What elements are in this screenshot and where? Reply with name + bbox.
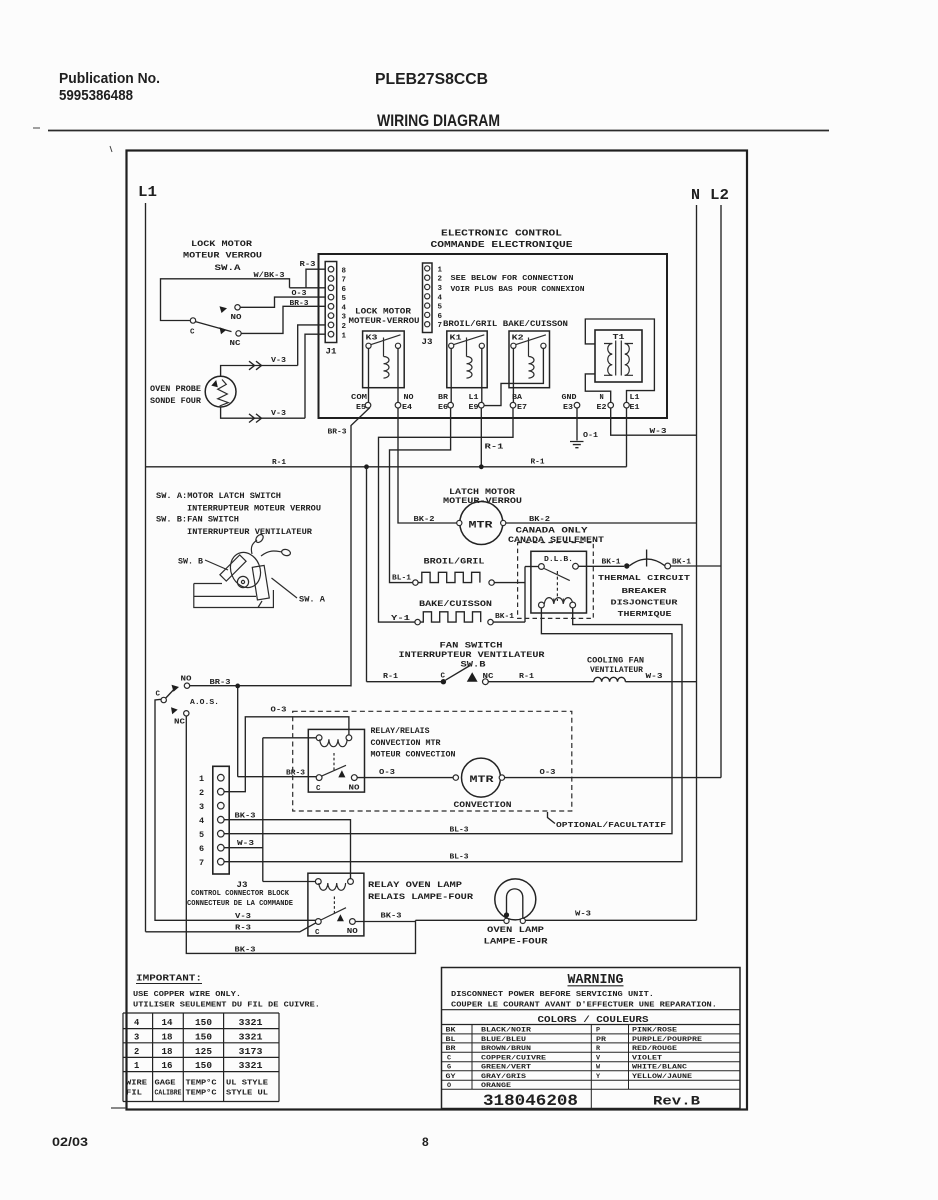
- wire T1 primary loop: [585, 319, 654, 402]
- relay oven lamp K5: [308, 873, 364, 937]
- wire R-1 main: [146, 459, 627, 470]
- svg-text:IMPORTANT:: IMPORTANT:: [136, 974, 202, 984]
- wire broil right to DLB: [494, 582, 525, 584]
- svg-text:C: C: [316, 785, 321, 793]
- svg-text:THERMIQUE: THERMIQUE: [618, 611, 673, 619]
- svg-text:COOLING FAN: COOLING FAN: [587, 657, 644, 665]
- svg-text:W-3: W-3: [646, 673, 664, 681]
- svg-text:CANADA ONLY: CANADA ONLY: [516, 527, 588, 536]
- wire T1 secondary to E2: [585, 374, 610, 403]
- relay convection K4: [308, 729, 364, 793]
- wire BK-3 AOS NC loop: [186, 716, 415, 953]
- svg-text:SW.A: SW.A: [215, 264, 241, 273]
- svg-text:NO: NO: [231, 314, 243, 322]
- main diagram border: [127, 151, 748, 1110]
- svg-text:2: 2: [438, 276, 443, 284]
- svg-text:8: 8: [422, 1135, 429, 1149]
- svg-text:1: 1: [199, 774, 204, 784]
- svg-text:DISCONNECT POWER BEFORE SERVIC: DISCONNECT POWER BEFORE SERVICING UNIT.: [451, 991, 654, 999]
- svg-text:4: 4: [134, 1018, 140, 1028]
- svg-text:P: P: [596, 1027, 600, 1035]
- svg-text:L1: L1: [630, 394, 640, 402]
- switch legend text: [156, 493, 321, 537]
- wire O-3 J3 pin2 to convection coil: [224, 707, 349, 792]
- svg-text:BK-1: BK-1: [495, 613, 515, 621]
- svg-text:L1: L1: [469, 394, 479, 402]
- svg-text:5: 5: [199, 830, 204, 840]
- switch SW.A: [183, 240, 262, 348]
- svg-text:CANADA SEULEMENT: CANADA SEULEMENT: [508, 536, 604, 545]
- optional dashed box: [293, 711, 572, 811]
- wire W-3 J3 pin6 to relay coils: [224, 738, 316, 882]
- relay K3: [363, 331, 405, 402]
- svg-text:R-1: R-1: [383, 673, 399, 681]
- svg-text:3: 3: [134, 1033, 139, 1043]
- svg-text:SEE BELOW FOR CONNECTION: SEE BELOW FOR CONNECTION: [451, 275, 574, 283]
- wire BK-2 latch motor to N: [506, 516, 697, 524]
- svg-text:3173: 3173: [239, 1047, 263, 1057]
- label canada only: [508, 527, 604, 546]
- svg-text:RELAY/RELAIS: RELAY/RELAIS: [371, 728, 430, 736]
- svg-text:4: 4: [199, 816, 204, 826]
- svg-text:K1: K1: [450, 335, 463, 343]
- warning box: [442, 968, 741, 1109]
- svg-text:NO: NO: [349, 785, 361, 793]
- wire O-3 NO to J1 pin 5: [240, 290, 325, 307]
- svg-text:SW. A:MOTOR LATCH SWITCH: SW. A:MOTOR LATCH SWITCH: [156, 493, 281, 501]
- svg-text:NO: NO: [181, 676, 193, 684]
- svg-text:GY: GY: [446, 1073, 457, 1081]
- svg-text:3: 3: [342, 314, 347, 322]
- svg-text:W-3: W-3: [237, 840, 255, 848]
- svg-text:E5: E5: [356, 404, 366, 412]
- svg-text:D.L.B.: D.L.B.: [544, 556, 573, 564]
- svg-text:E2: E2: [597, 404, 607, 412]
- label optional: [548, 812, 667, 830]
- svg-text:BL: BL: [446, 1036, 456, 1044]
- wire BR-3 AOS to E5: [190, 686, 351, 777]
- svg-text:RELAY OVEN LAMP: RELAY OVEN LAMP: [368, 881, 462, 890]
- svg-text:C: C: [190, 329, 195, 337]
- colors table: [442, 1025, 741, 1109]
- svg-text:R-1: R-1: [519, 673, 535, 681]
- oven probe RT1: [150, 376, 236, 407]
- svg-text:BLACK/NOIR: BLACK/NOIR: [481, 1027, 532, 1035]
- svg-text:A.O.S.: A.O.S.: [190, 699, 219, 707]
- svg-text:Publication No.: Publication No.: [59, 70, 160, 87]
- svg-text:BR-3: BR-3: [286, 770, 306, 778]
- svg-text:FIL: FIL: [126, 1090, 143, 1098]
- svg-text:O-3: O-3: [271, 707, 288, 715]
- svg-text:18: 18: [162, 1047, 173, 1057]
- svg-text:J1: J1: [326, 347, 337, 357]
- wire BK-3 J3 pin4 to lamp coil: [224, 813, 350, 879]
- svg-text:STYLE UL: STYLE UL: [226, 1090, 268, 1098]
- svg-text:WIRING DIAGRAM: WIRING DIAGRAM: [377, 112, 500, 130]
- wire bake right to DLB riser: [493, 567, 525, 623]
- svg-text:2: 2: [134, 1047, 139, 1057]
- svg-text:VENTILATEUR: VENTILATEUR: [590, 667, 643, 675]
- svg-text:3321: 3321: [239, 1061, 263, 1071]
- terminal E4: [395, 394, 413, 412]
- wire V-3 probe bottom: [221, 407, 305, 423]
- svg-text:K2: K2: [512, 335, 525, 343]
- svg-text:MOTEUR CONVECTION: MOTEUR CONVECTION: [371, 752, 456, 760]
- svg-text:8: 8: [342, 267, 347, 275]
- svg-text:INTERRUPTEUR VENTILATEUR: INTERRUPTEUR VENTILATEUR: [187, 529, 312, 537]
- svg-text:RELAIS LAMPE-FOUR: RELAIS LAMPE-FOUR: [368, 893, 473, 902]
- wire L1 rail: [145, 203, 147, 932]
- svg-text:2: 2: [199, 788, 204, 798]
- svg-text:LOCK MOTOR: LOCK MOTOR: [355, 308, 411, 317]
- svg-text:CONTROL CONNECTOR BLOCK: CONTROL CONNECTOR BLOCK: [191, 890, 290, 898]
- svg-text:GRAY/GRIS: GRAY/GRIS: [481, 1073, 526, 1081]
- wire V-3 probe top: [221, 357, 298, 376]
- svg-text:CONVECTION: CONVECTION: [454, 802, 512, 810]
- wire J1 pin 6: [290, 287, 326, 289]
- svg-text:TEMP°C: TEMP°C: [186, 1089, 218, 1098]
- svg-text:318046208: 318046208: [483, 1092, 578, 1110]
- svg-text:4: 4: [342, 304, 347, 312]
- svg-text:C: C: [441, 673, 446, 681]
- svg-text:MTR: MTR: [469, 520, 494, 532]
- svg-text:LAMPE-FOUR: LAMPE-FOUR: [484, 938, 548, 947]
- label thermal breaker: [598, 575, 691, 619]
- svg-text:CONVECTION MTR: CONVECTION MTR: [371, 740, 441, 748]
- svg-text:THERMAL CIRCUIT: THERMAL CIRCUIT: [598, 575, 691, 583]
- oven lamp LP1: [484, 879, 548, 947]
- svg-text:BAKE/CUISSON: BAKE/CUISSON: [419, 600, 492, 609]
- heating element bake: [391, 600, 515, 625]
- svg-text:E1: E1: [630, 404, 640, 412]
- svg-text:FAN SWITCH: FAN SWITCH: [440, 642, 503, 650]
- svg-text:R-1: R-1: [272, 459, 287, 467]
- connector J3 lower: [187, 766, 293, 908]
- svg-text:VIOLET: VIOLET: [632, 1055, 662, 1063]
- svg-text:INTERRUPTEUR VENTILATEUR: INTERRUPTEUR VENTILATEUR: [399, 652, 545, 660]
- svg-text:V-3: V-3: [235, 913, 252, 921]
- motor convection MTR: [453, 758, 512, 810]
- svg-text:BK-3: BK-3: [235, 947, 257, 955]
- wire BR-3 NC to J1 pin 4: [241, 300, 325, 334]
- svg-text:150: 150: [195, 1033, 212, 1043]
- wire O-3 MTR to L2: [505, 769, 721, 778]
- svg-text:BREAKER: BREAKER: [622, 588, 668, 596]
- svg-text:1: 1: [342, 332, 347, 340]
- svg-text:6: 6: [342, 286, 347, 294]
- svg-text:14: 14: [162, 1018, 174, 1028]
- svg-text:J3: J3: [237, 881, 248, 890]
- svg-text:PLEB27S8CCB: PLEB27S8CCB: [375, 71, 488, 88]
- terminal E7: [510, 394, 527, 412]
- wire BL-3 J3 pin7 to DLB coil right: [224, 608, 682, 862]
- svg-text:4: 4: [438, 294, 443, 302]
- svg-text:R-3: R-3: [300, 261, 317, 269]
- svg-text:C: C: [447, 1055, 451, 1063]
- svg-text:LATCH MOTOR: LATCH MOTOR: [449, 488, 515, 497]
- svg-text:UTILISER SEULEMENT DU FIL DE C: UTILISER SEULEMENT DU FIL DE CUIVRE.: [133, 1002, 320, 1010]
- svg-text:GND: GND: [562, 394, 577, 402]
- switch AOS: [156, 676, 220, 727]
- svg-text:O-3: O-3: [540, 769, 557, 777]
- wire E2 W-3 to N: [611, 408, 697, 436]
- wire DLB left contact: [525, 566, 539, 568]
- svg-text:V-3: V-3: [271, 410, 287, 418]
- svg-text:BR: BR: [446, 1045, 457, 1053]
- svg-text:YELLOW/JAUNE: YELLOW/JAUNE: [632, 1073, 692, 1081]
- svg-text:NC: NC: [174, 719, 186, 727]
- svg-text:BR: BR: [438, 394, 449, 402]
- svg-text:BK-2: BK-2: [414, 516, 436, 524]
- label convection relay: [371, 728, 456, 760]
- svg-text:E9: E9: [469, 404, 479, 412]
- wire E7 to bake: [379, 408, 514, 622]
- svg-text:USE COPPER WIRE ONLY.: USE COPPER WIRE ONLY.: [133, 991, 241, 999]
- svg-text:7: 7: [199, 858, 204, 868]
- wire R-3 L1 to lamp relay: [146, 923, 317, 933]
- svg-text:ORANGE: ORANGE: [481, 1082, 511, 1090]
- svg-text:Y-1: Y-1: [391, 615, 411, 623]
- svg-text:BK-1: BK-1: [672, 558, 692, 566]
- svg-text:T1: T1: [613, 334, 626, 342]
- svg-text:5995386488: 5995386488: [59, 87, 133, 104]
- important note: [133, 974, 320, 1010]
- svg-text:BROIL/GRIL BAKE/CUISSON: BROIL/GRIL BAKE/CUISSON: [443, 320, 568, 329]
- wire R-1 drop to fan switch: [366, 467, 368, 682]
- svg-text:OVEN PROBE: OVEN PROBE: [150, 385, 201, 394]
- svg-text:PINK/ROSE: PINK/ROSE: [632, 1027, 677, 1035]
- svg-text:CONNECTEUR DE LA COMMANDE: CONNECTEUR DE LA COMMANDE: [187, 900, 293, 908]
- wire O-3 relay NO to MTR: [357, 769, 453, 778]
- svg-text:L2: L2: [710, 187, 729, 204]
- scan tick top-left: [33, 128, 112, 152]
- svg-text:DISJONCTEUR: DISJONCTEUR: [611, 600, 679, 608]
- relay DLB: [531, 551, 587, 613]
- wire BK-3 relay NO to lamp: [355, 913, 504, 922]
- svg-text:BR-3: BR-3: [210, 679, 232, 687]
- svg-text:MOTEUR-VERROU: MOTEUR-VERROU: [349, 317, 420, 326]
- junction AOS BR-3: [235, 684, 240, 689]
- svg-text:PR: PR: [596, 1036, 607, 1044]
- svg-text:Rev.B: Rev.B: [653, 1094, 700, 1109]
- latch assembly illustration: [178, 533, 325, 607]
- svg-text:E3: E3: [563, 404, 573, 412]
- svg-text:02/03: 02/03: [52, 1135, 88, 1149]
- relay K1: [447, 331, 487, 403]
- terminal E5: [351, 394, 371, 412]
- switch SW.B fan: [367, 642, 594, 684]
- svg-text:W-3: W-3: [575, 910, 592, 918]
- wire N rail: [696, 205, 698, 920]
- svg-text:NO: NO: [347, 928, 359, 936]
- svg-text:O: O: [447, 1082, 451, 1090]
- svg-text:1: 1: [134, 1061, 139, 1071]
- svg-text:5: 5: [438, 304, 443, 312]
- svg-text:7: 7: [438, 322, 443, 330]
- svg-text:N: N: [600, 394, 604, 402]
- svg-text:LOCK MOTOR: LOCK MOTOR: [191, 240, 252, 249]
- svg-text:J3: J3: [422, 337, 433, 347]
- note see below: [451, 275, 585, 294]
- svg-text:NO: NO: [404, 394, 414, 402]
- svg-text:BK-1: BK-1: [602, 558, 622, 566]
- svg-text:CALIBRE: CALIBRE: [155, 1090, 182, 1098]
- svg-text:E7: E7: [517, 404, 527, 412]
- svg-text:INTERRUPTEUR MOTEUR VERROU: INTERRUPTEUR MOTEUR VERROU: [187, 506, 321, 514]
- svg-text:COM: COM: [351, 394, 367, 402]
- svg-text:VOIR PLUS BAS POUR CONNEXION: VOIR PLUS BAS POUR CONNEXION: [451, 286, 585, 294]
- connector J1: [325, 262, 346, 357]
- svg-text:SW. B: SW. B: [178, 559, 203, 567]
- svg-text:TEMP°C: TEMP°C: [186, 1079, 218, 1088]
- header rule: [48, 130, 829, 132]
- svg-text:WHITE/BLANC: WHITE/BLANC: [632, 1064, 687, 1072]
- wire DLB to breaker: [578, 565, 624, 567]
- svg-text:18: 18: [162, 1033, 173, 1043]
- svg-text:COPPER/CUIVRE: COPPER/CUIVRE: [481, 1055, 546, 1063]
- transformer T1: [595, 330, 642, 382]
- label oven lamp relay: [368, 881, 473, 902]
- svg-text:E6: E6: [438, 404, 448, 412]
- svg-text:BL-1: BL-1: [392, 574, 412, 582]
- thermal circuit breaker CB1: [624, 550, 671, 569]
- electronic control box U1: [319, 254, 668, 418]
- wire gauge table: [123, 1013, 279, 1102]
- svg-text:5: 5: [342, 295, 347, 303]
- terminal E3: [562, 394, 580, 412]
- wire E4 to latch motor: [398, 408, 459, 523]
- terminal E1: [624, 394, 640, 412]
- svg-text:R-1: R-1: [531, 459, 546, 467]
- svg-text:O-1: O-1: [583, 432, 599, 440]
- svg-text:C: C: [315, 929, 320, 937]
- ground E3: [570, 408, 599, 448]
- svg-text:K3: K3: [366, 335, 379, 343]
- svg-text:OPTIONAL/FACULTATIF: OPTIONAL/FACULTATIF: [556, 822, 667, 830]
- wire L2 rail: [720, 205, 722, 778]
- svg-text:OVEN LAMP: OVEN LAMP: [487, 926, 544, 935]
- svg-text:C: C: [156, 691, 161, 699]
- svg-text:RED/ROUGE: RED/ROUGE: [632, 1045, 677, 1053]
- svg-text:E4: E4: [402, 404, 412, 412]
- svg-text:SW. B:FAN SWITCH: SW. B:FAN SWITCH: [156, 517, 239, 525]
- svg-text:125: 125: [195, 1047, 212, 1057]
- svg-text:SW. A: SW. A: [299, 597, 325, 605]
- svg-text:ELECTRONIC CONTROL: ELECTRONIC CONTROL: [441, 229, 562, 239]
- wire W-3 lamp to N: [525, 910, 696, 920]
- svg-text:SONDE FOUR: SONDE FOUR: [150, 397, 201, 406]
- svg-text:UL STYLE: UL STYLE: [226, 1080, 268, 1088]
- svg-text:BL-3: BL-3: [450, 854, 470, 862]
- wire V-3 AOS C to lamp relay: [155, 699, 315, 920]
- svg-text:NC: NC: [230, 340, 242, 348]
- svg-text:7: 7: [342, 277, 347, 285]
- terminal E6: [438, 394, 453, 412]
- wire W/BK-3 lock switch loop: [161, 272, 290, 321]
- wire E6 to broil: [390, 408, 451, 583]
- svg-text:GREEN/VERT: GREEN/VERT: [481, 1064, 531, 1072]
- svg-text:BROWN/BRUN: BROWN/BRUN: [481, 1045, 531, 1053]
- latch motor MTR: [443, 488, 522, 545]
- wire E9 to R-1: [481, 408, 504, 467]
- svg-text:BA: BA: [512, 394, 523, 402]
- svg-text:150: 150: [195, 1018, 212, 1028]
- wire BL-3 J3 pin5 to DLB coil: [224, 608, 672, 835]
- svg-text:V-3: V-3: [271, 357, 287, 365]
- svg-text:6: 6: [199, 844, 204, 854]
- heating element broil: [392, 558, 494, 586]
- svg-text:O-3: O-3: [379, 769, 396, 777]
- svg-text:N: N: [691, 187, 700, 204]
- svg-text:BROIL/GRIL: BROIL/GRIL: [424, 558, 485, 567]
- svg-text:BLUE/BLEU: BLUE/BLEU: [481, 1036, 526, 1044]
- svg-text:3: 3: [438, 285, 443, 293]
- svg-text:BR-3: BR-3: [328, 429, 348, 437]
- svg-text:2: 2: [342, 323, 347, 331]
- svg-text:R-3: R-3: [235, 924, 252, 932]
- wire J1 pin 1 to probe: [305, 334, 325, 418]
- svg-text:COLORS / COULEURS: COLORS / COULEURS: [538, 1014, 649, 1025]
- svg-text:6: 6: [438, 313, 443, 321]
- svg-text:1: 1: [438, 266, 443, 274]
- svg-text:3321: 3321: [239, 1018, 263, 1028]
- wire J1 pin 2 to probe: [298, 325, 326, 366]
- svg-text:3: 3: [199, 802, 204, 812]
- svg-text:BK-3: BK-3: [381, 913, 403, 921]
- svg-text:MTR: MTR: [470, 774, 495, 786]
- wire E1 to R-1: [626, 408, 628, 467]
- header publication number: [59, 70, 160, 104]
- svg-text:150: 150: [195, 1061, 212, 1071]
- scan tick bottom-left: [111, 1107, 126, 1109]
- svg-text:WIRE: WIRE: [126, 1080, 148, 1088]
- svg-text:PURPLE/POURPRE: PURPLE/POURPRE: [632, 1036, 702, 1044]
- connector J3 upper: [422, 263, 443, 347]
- svg-text:3321: 3321: [239, 1033, 263, 1043]
- svg-text:R-1: R-1: [485, 444, 505, 452]
- terminal E9: [469, 394, 485, 412]
- svg-text:COUPER LE COURANT AVANT D'EFFE: COUPER LE COURANT AVANT D'EFFECTUER UNE …: [451, 1002, 717, 1010]
- relay K2: [484, 331, 549, 406]
- svg-text:16: 16: [162, 1061, 173, 1071]
- svg-text:MOTEUR VERROU: MOTEUR VERROU: [183, 252, 262, 261]
- wire BR-3 from E5: [328, 408, 370, 687]
- svg-text:L1: L1: [138, 184, 157, 201]
- svg-text:COMMANDE ELECTRONIQUE: COMMANDE ELECTRONIQUE: [431, 240, 574, 250]
- svg-text:GAGE: GAGE: [155, 1080, 177, 1088]
- cooling fan inductor: [587, 657, 697, 681]
- wire breaker to L2: [671, 565, 721, 567]
- svg-text:BK: BK: [446, 1027, 457, 1035]
- canada dashed box: [518, 543, 594, 619]
- label lock motor relay: [349, 308, 420, 326]
- terminal E2: [597, 394, 614, 412]
- svg-text:G: G: [447, 1064, 451, 1072]
- wire R-3 to J1 pin 8: [300, 261, 326, 288]
